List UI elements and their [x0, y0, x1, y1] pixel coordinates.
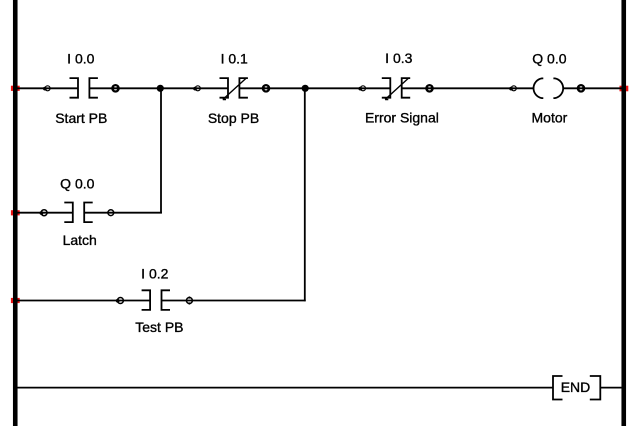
pin (input) of contact I0.3: [358, 86, 365, 91]
wire rung1 contact I0.1 to contact I0.3: [239, 87, 390, 89]
svg-text:Test PB: Test PB: [135, 319, 183, 335]
svg-text:END: END: [561, 379, 591, 395]
svg-text:I 0.0: I 0.0: [67, 50, 94, 66]
svg-text:Q 0.0: Q 0.0: [60, 176, 94, 192]
slash of NC contact I0.3: [385, 78, 409, 100]
svg-text:Q 0.0: Q 0.0: [532, 50, 566, 66]
wire rung1 contact I0.3 to coil Q0.0: [402, 87, 534, 89]
wire END box to right rail: [600, 387, 623, 389]
power connection marker (red) right rail rung 1: [620, 86, 629, 92]
pin (input) of coil Q0.0: [509, 86, 516, 91]
pin (output) of contact I0.1: [262, 85, 271, 91]
pin (output) of contact I0.2: [186, 296, 192, 304]
wire rung3 rail to contact I0.2: [13, 300, 150, 302]
contact I0.3 (NC) Error Signal: [382, 78, 410, 98]
wire rung3 contact I0.2 to branch corner: [162, 300, 306, 302]
power connection marker (red) left rail rung 2: [11, 210, 20, 215]
pin (output) of contact I0.0: [111, 85, 120, 91]
pin (input) of contact I0.0: [43, 86, 50, 91]
svg-text:I 0.2: I 0.2: [141, 266, 168, 282]
wire branch vertical junction B to rung3: [304, 88, 306, 301]
slash of NC contact I0.1: [223, 78, 247, 100]
wire end-rung rail to END box: [13, 387, 553, 389]
svg-text:I 0.3: I 0.3: [385, 50, 412, 66]
wire rung1 rail to contact I0.0: [13, 87, 78, 89]
svg-text:I 0.1: I 0.1: [221, 50, 248, 66]
junction A (after Start PB): [157, 85, 164, 92]
svg-text:Latch: Latch: [63, 232, 97, 248]
power connection marker (red) left rail rung 1: [11, 86, 20, 91]
wire rung2 contact Latch to branch corner: [84, 212, 162, 214]
right power rail: [621, 0, 626, 426]
contact I0.2 (NO) Test PB: [142, 290, 170, 310]
svg-text:Error Signal: Error Signal: [365, 110, 439, 126]
coil Q0.0 Motor: [534, 78, 564, 98]
pin (output) of contact I0.3: [425, 85, 434, 91]
contact I0.0 (NO) Start PB: [70, 78, 98, 98]
wire rung2 rail to contact Latch: [13, 212, 73, 214]
pin (output) of coil Q0.0: [577, 85, 586, 91]
pin (input) of contact I0.2: [116, 298, 124, 304]
END box: [553, 376, 600, 400]
wire branch vertical junction A to rung2: [160, 88, 162, 213]
contact I0.1 (NC) Stop PB: [220, 78, 248, 98]
wire rung1 coil Q0.0 to right rail: [564, 87, 623, 89]
svg-text:Start PB: Start PB: [55, 110, 107, 126]
svg-text:Stop PB: Stop PB: [208, 110, 259, 126]
pin (input) of contact I0.1: [193, 86, 200, 91]
contact Q0.0 (NO) Latch: [64, 203, 92, 223]
left power rail: [13, 0, 18, 426]
pin (input) of contact Latch: [40, 210, 48, 216]
power connection marker (red) left rail rung 3: [11, 298, 20, 303]
svg-text:Motor: Motor: [532, 109, 568, 125]
wire rung1 contact I0.0 to contact I0.1: [89, 87, 228, 89]
junction B (after Stop PB): [302, 85, 309, 92]
pin (output) of contact Latch: [108, 210, 114, 216]
